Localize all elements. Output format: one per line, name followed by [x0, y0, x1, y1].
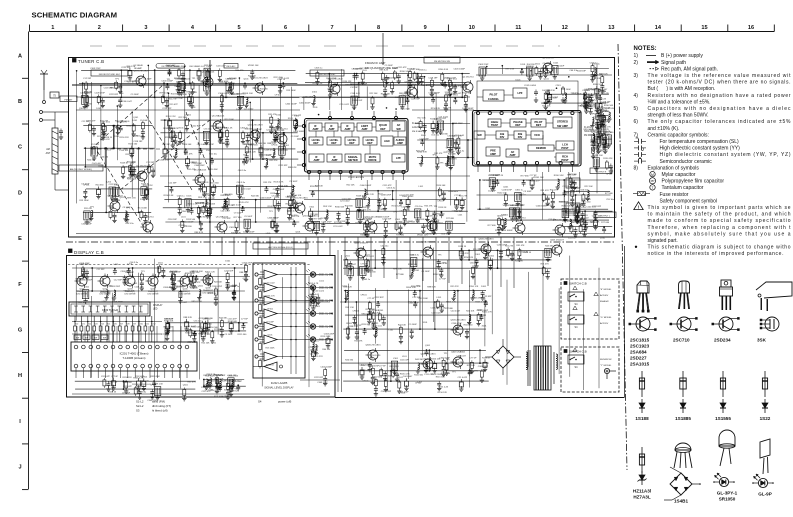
svg-text:R150 12K: R150 12K	[603, 158, 613, 160]
svg-text:11: 11	[515, 25, 521, 31]
svg-text:Q603 2SA684: Q603 2SA684	[451, 351, 466, 354]
svg-text:D101: D101	[421, 135, 427, 137]
svg-text:The voltage is the reference v: The voltage is the reference value measu…	[648, 73, 792, 79]
svg-text:R29: R29	[132, 324, 135, 326]
svg-text:ANT: ANT	[46, 152, 51, 155]
svg-text:CF101: CF101	[123, 121, 130, 123]
svg-text:CF101: CF101	[202, 182, 209, 184]
svg-text:Q101: Q101	[243, 78, 249, 80]
svg-text:LEVEL: LEVEL	[330, 138, 339, 142]
svg-text:Q605 2SC1815: Q605 2SC1815	[365, 345, 381, 347]
svg-text:D101: D101	[535, 64, 541, 66]
svg-text:C400 1000P: C400 1000P	[359, 364, 371, 366]
svg-text:C9 100P: C9 100P	[422, 271, 431, 273]
svg-text:and ±10% (K).: and ±10% (K).	[648, 126, 680, 132]
svg-text:S2-L2: S2-L2	[136, 404, 144, 408]
svg-text:C208 470P: C208 470P	[321, 221, 332, 223]
svg-text:SW: SW	[85, 338, 88, 340]
svg-text:C833 TL50+D: C833 TL50+D	[102, 308, 118, 312]
svg-text:C303 220P: C303 220P	[90, 68, 101, 70]
svg-text:R31 47K: R31 47K	[431, 220, 440, 222]
svg-text:VR101 10K: VR101 10K	[274, 130, 285, 132]
svg-text:R31 47K: R31 47K	[84, 92, 93, 94]
svg-text:R31 47K: R31 47K	[541, 264, 550, 266]
svg-text:R22 10K: R22 10K	[398, 324, 407, 326]
svg-text:R99 1.5K: R99 1.5K	[598, 134, 607, 136]
svg-text:C208 470P: C208 470P	[502, 190, 513, 192]
svg-text:3SK: 3SK	[757, 338, 767, 343]
svg-text:CF101: CF101	[352, 311, 359, 313]
svg-text:1S188: 1S188	[635, 416, 649, 421]
svg-text:R31 47K: R31 47K	[189, 92, 198, 94]
svg-text:Q101: Q101	[544, 79, 550, 81]
svg-text:C9 100P: C9 100P	[234, 213, 243, 215]
svg-text:D101: D101	[410, 255, 416, 257]
svg-text:X101: X101	[482, 325, 488, 327]
svg-text:C44 0.047: C44 0.047	[569, 187, 579, 189]
svg-text:C21 0.022: C21 0.022	[103, 286, 113, 288]
svg-text:R44 330: R44 330	[258, 143, 267, 145]
svg-text:C12 33P: C12 33P	[81, 121, 90, 123]
svg-text:R22 10K: R22 10K	[369, 93, 378, 95]
svg-text:R22 10K: R22 10K	[542, 106, 551, 108]
svg-text:C44 0.047: C44 0.047	[122, 101, 132, 103]
svg-text:IF: IF	[333, 155, 336, 159]
svg-text:C21 0.022: C21 0.022	[244, 109, 254, 111]
svg-text:KE/SW/OW: KE/SW/OW	[600, 359, 612, 361]
svg-text:F: F	[18, 282, 22, 288]
svg-text:TUNER C.B: TUNER C.B	[78, 59, 104, 64]
svg-text:D101: D101	[106, 149, 112, 151]
svg-text:9: 9	[424, 25, 427, 31]
svg-text:R99 1.5K: R99 1.5K	[198, 197, 207, 199]
svg-text:C242 0.0056: C242 0.0056	[524, 85, 537, 87]
svg-text:R201 2.2K: R201 2.2K	[452, 362, 462, 364]
svg-text:R23: R23	[94, 324, 97, 326]
svg-text:Q2 2SC710: Q2 2SC710	[462, 77, 474, 79]
svg-text:X101: X101	[381, 204, 387, 206]
svg-text:D101: D101	[526, 180, 532, 182]
svg-text:AMP: AMP	[329, 127, 335, 131]
svg-text:2SD234: 2SD234	[714, 338, 731, 343]
svg-text:R200 3.9K: R200 3.9K	[591, 78, 601, 80]
svg-text:D101: D101	[84, 287, 90, 289]
svg-text:R210: R210	[138, 324, 143, 326]
svg-text:SW: SW	[94, 338, 97, 340]
svg-text:R44 330: R44 330	[290, 215, 299, 217]
svg-text:C400 1000P: C400 1000P	[462, 108, 474, 110]
svg-text:C12 33P: C12 33P	[146, 162, 155, 164]
svg-text:C305 1u: C305 1u	[518, 194, 527, 196]
svg-text:R150 12K: R150 12K	[497, 193, 507, 195]
svg-text:C208 470P: C208 470P	[79, 263, 90, 265]
svg-text:AMP: AMP	[345, 127, 351, 131]
svg-text:R150 12K: R150 12K	[469, 286, 479, 288]
svg-text:R77 680: R77 680	[229, 78, 238, 80]
svg-text:R77 680: R77 680	[446, 218, 455, 220]
svg-text:R22 10K: R22 10K	[179, 117, 188, 119]
svg-text:C115 47P: C115 47P	[382, 185, 392, 187]
svg-text:C208 470P: C208 470P	[564, 193, 575, 195]
svg-text:AF: AF	[511, 150, 515, 154]
svg-text:C400 1000P: C400 1000P	[273, 189, 285, 191]
svg-text:C55 10u: C55 10u	[441, 234, 450, 236]
svg-text:R77 680: R77 680	[601, 222, 610, 224]
svg-text:R310 56K: R310 56K	[126, 126, 136, 128]
svg-text:R201 2.2K: R201 2.2K	[547, 98, 557, 100]
svg-text:CF101: CF101	[606, 174, 613, 176]
svg-text:R44 330: R44 330	[170, 271, 179, 273]
svg-text:AUDIO: AUDIO	[396, 138, 405, 142]
svg-text:C21 0.022: C21 0.022	[439, 116, 449, 118]
svg-text:R55 27K: R55 27K	[461, 253, 470, 255]
svg-text:X101: X101	[393, 358, 399, 360]
svg-text:R55 27K: R55 27K	[451, 286, 460, 288]
svg-text:Q101: Q101	[133, 117, 139, 119]
svg-text:S3: S3	[136, 409, 140, 413]
svg-text:C77 6P: C77 6P	[379, 366, 387, 368]
svg-text:R115 560: R115 560	[464, 324, 474, 326]
svg-text:C21 0.022: C21 0.022	[431, 313, 441, 315]
svg-text:C55 10u: C55 10u	[380, 246, 389, 248]
svg-text:R150 12K: R150 12K	[581, 105, 591, 107]
svg-text:R77 680: R77 680	[605, 193, 614, 195]
svg-text:R25: R25	[107, 324, 110, 326]
svg-text:C303 220P: C303 220P	[431, 374, 442, 376]
svg-text:C118 18P: C118 18P	[577, 71, 587, 73]
svg-text:R26: R26	[113, 324, 116, 326]
svg-text:C222 82P: C222 82P	[374, 297, 384, 299]
svg-text:C208 470P: C208 470P	[203, 144, 214, 146]
svg-text:CF101: CF101	[362, 381, 369, 383]
svg-text:R115 560: R115 560	[582, 202, 592, 204]
svg-text:R200 3.9K: R200 3.9K	[593, 84, 603, 86]
svg-text:R115 560: R115 560	[274, 77, 284, 79]
svg-text:X101: X101	[414, 270, 420, 272]
svg-text:D101: D101	[158, 262, 164, 264]
svg-text:C118 18P: C118 18P	[168, 219, 178, 221]
svg-text:CF101: CF101	[446, 148, 453, 150]
svg-text:notice in the interests of imp: notice in the interests of improved perf…	[648, 251, 784, 257]
svg-text:R55 27K: R55 27K	[473, 249, 482, 251]
svg-text:C9 100P: C9 100P	[91, 144, 100, 146]
svg-text:C77 6P: C77 6P	[595, 98, 603, 100]
svg-text:D101: D101	[276, 115, 282, 117]
svg-text:C77 6P: C77 6P	[469, 357, 477, 359]
svg-text:C115 47P: C115 47P	[169, 104, 179, 106]
svg-text:strength of less than 50WV.: strength of less than 50WV.	[648, 113, 709, 119]
svg-text:C66 3.3u: C66 3.3u	[125, 223, 134, 225]
svg-text:C44 0.047: C44 0.047	[542, 90, 552, 92]
svg-text:C77 6P: C77 6P	[356, 249, 364, 251]
svg-text:C118 18P: C118 18P	[133, 141, 143, 143]
svg-text:C222 82P: C222 82P	[121, 67, 131, 69]
svg-text:R105 4.7K: R105 4.7K	[601, 126, 611, 128]
svg-text:C9 100P: C9 100P	[523, 191, 532, 193]
svg-text:Q101: Q101	[242, 278, 248, 280]
svg-text:C305 1u: C305 1u	[419, 70, 428, 72]
svg-text:C12 33P: C12 33P	[168, 182, 177, 184]
svg-text:R150 12K: R150 12K	[119, 137, 129, 139]
svg-text:C9 100P: C9 100P	[244, 216, 253, 218]
svg-text:IF: IF	[346, 124, 349, 128]
svg-text:High dielectric constant syste: High dielectric constant system (YY)	[660, 146, 741, 152]
svg-text:C55 10u: C55 10u	[606, 199, 615, 201]
svg-text:1): 1)	[634, 53, 639, 59]
svg-text:R44 330: R44 330	[368, 271, 377, 273]
svg-text:R31 47K: R31 47K	[516, 245, 525, 247]
svg-text:R150 12K: R150 12K	[519, 251, 529, 253]
svg-text:R118 1K: R118 1K	[438, 207, 447, 209]
svg-text:R200 3.9K: R200 3.9K	[400, 71, 410, 73]
svg-text:2SC1815: 2SC1815	[630, 338, 650, 343]
svg-text:C208 470P: C208 470P	[212, 286, 223, 288]
svg-text:R99 1.5K: R99 1.5K	[505, 68, 514, 70]
svg-text:R22 10K: R22 10K	[329, 94, 338, 96]
svg-text:R310 56K: R310 56K	[361, 370, 371, 372]
svg-text:G: G	[18, 328, 22, 334]
svg-text:R44 330: R44 330	[251, 196, 260, 198]
svg-text:Q601 2SD227: Q601 2SD227	[550, 240, 565, 242]
svg-text:R115 560: R115 560	[414, 374, 424, 376]
svg-text:R150 12K: R150 12K	[431, 359, 441, 361]
svg-text:Q101: Q101	[489, 255, 495, 257]
svg-text:C208 470P: C208 470P	[94, 92, 105, 94]
svg-text:R201 2.2K: R201 2.2K	[355, 223, 365, 225]
svg-text:X101: X101	[313, 107, 319, 109]
svg-text:R13 100K: R13 100K	[572, 94, 582, 96]
svg-text:C222 82P: C222 82P	[545, 205, 555, 207]
svg-text:C208 470P: C208 470P	[472, 298, 483, 300]
svg-text:C21 0.022: C21 0.022	[563, 221, 573, 223]
svg-text:R31 47K: R31 47K	[100, 121, 109, 123]
svg-text:R118 1K: R118 1K	[126, 154, 135, 156]
svg-text:SCHEMATIC DIAGRAM: SCHEMATIC DIAGRAM	[32, 11, 118, 20]
svg-text:C115 47P: C115 47P	[597, 91, 607, 93]
svg-text:16: 16	[748, 25, 754, 31]
svg-text:B (+) power supply: B (+) power supply	[661, 53, 703, 59]
svg-text:IC101 LA1231N: IC101 LA1231N	[348, 176, 364, 179]
svg-text:X101: X101	[309, 206, 315, 208]
svg-text:R201 2.2K: R201 2.2K	[601, 108, 611, 110]
svg-text:FM/AM IF AMP: FM/AM IF AMP	[365, 61, 385, 65]
svg-text:FM MUTING SW: FM MUTING SW	[434, 61, 450, 63]
svg-text:VR101 10K: VR101 10K	[242, 93, 253, 95]
svg-text:C118 18P: C118 18P	[119, 150, 129, 152]
svg-text:to maintain the safety of the: to maintain the safety of the product, a…	[648, 212, 791, 218]
svg-text:LED: LED	[153, 309, 158, 311]
svg-text:Therefore, when replacing a co: Therefore, when replacing a component wi…	[648, 225, 792, 231]
svg-text:R310 56K: R310 56K	[335, 207, 345, 209]
svg-text:DRIVE: DRIVE	[368, 158, 376, 162]
svg-text:C12 33P: C12 33P	[488, 190, 497, 192]
svg-text:FM ANT: FM ANT	[64, 98, 73, 101]
svg-text:C303 220P: C303 220P	[446, 77, 457, 79]
svg-text:C101 0.01: C101 0.01	[218, 93, 228, 95]
svg-text:R105 4.7K: R105 4.7K	[468, 370, 478, 372]
svg-text:High dielectric constant syste: High dielectric constant system (YW, YP,…	[660, 152, 791, 158]
svg-text:C44 0.047: C44 0.047	[232, 205, 242, 207]
svg-text:AF: AF	[397, 123, 401, 127]
svg-text:R22 10K: R22 10K	[466, 310, 475, 312]
svg-text:R22 10K: R22 10K	[585, 186, 594, 188]
svg-text:R28: R28	[126, 324, 129, 326]
svg-text:R105 4.7K: R105 4.7K	[482, 312, 492, 314]
svg-text:SR1050: SR1050	[719, 497, 736, 502]
svg-text:IC201 T-400J (T.Beam): IC201 T-400J (T.Beam)	[120, 352, 149, 356]
svg-text:D101: D101	[475, 254, 481, 256]
svg-text:R24: R24	[100, 324, 103, 326]
svg-text:C12 33P: C12 33P	[162, 144, 171, 146]
svg-text:C77 6P: C77 6P	[354, 325, 362, 327]
svg-text:X101: X101	[501, 214, 507, 216]
svg-text:R44 330: R44 330	[545, 245, 554, 247]
svg-text:C9 100P: C9 100P	[368, 325, 377, 327]
svg-text:R13 100K: R13 100K	[79, 200, 89, 202]
svg-text:C400 1000P: C400 1000P	[378, 217, 390, 219]
svg-text:MUTE: MUTE	[369, 155, 377, 159]
svg-text:dfc/muting (FT): dfc/muting (FT)	[152, 404, 171, 408]
svg-text:Q605 2SC1815: Q605 2SC1815	[450, 320, 466, 322]
svg-text:C305 1u: C305 1u	[590, 63, 599, 65]
svg-text:C44 0.047: C44 0.047	[342, 198, 352, 200]
svg-text:VR101 10K: VR101 10K	[361, 313, 372, 315]
svg-text:1S1555: 1S1555	[715, 416, 731, 421]
svg-text:C77 6P: C77 6P	[439, 279, 447, 281]
svg-text:19k: 19k	[500, 132, 505, 136]
svg-text:PILOT: PILOT	[535, 120, 543, 124]
svg-text:R99 1.5K: R99 1.5K	[220, 195, 229, 197]
svg-text:C118 18P: C118 18P	[428, 77, 438, 79]
svg-text:X101: X101	[284, 145, 290, 147]
svg-text:R118 1K: R118 1K	[526, 66, 535, 68]
svg-text:R22 10K: R22 10K	[418, 118, 427, 120]
svg-text:R310 56K: R310 56K	[175, 66, 185, 68]
svg-text:C222 82P: C222 82P	[382, 375, 392, 377]
svg-text:R22 10K: R22 10K	[315, 185, 324, 187]
svg-text:CF101: CF101	[239, 198, 246, 200]
svg-text:C55 10u: C55 10u	[415, 206, 424, 208]
svg-text:BS/AG/K: BS/AG/K	[600, 300, 609, 303]
svg-text:IC202 LA2285: IC202 LA2285	[271, 381, 288, 385]
svg-text:R118 1K: R118 1K	[165, 137, 174, 139]
svg-text:C115 47P: C115 47P	[397, 67, 407, 69]
svg-text:2): 2)	[634, 60, 639, 66]
svg-text:AMP: AMP	[314, 158, 320, 162]
svg-text:Tantalum capacitor: Tantalum capacitor	[662, 185, 704, 191]
svg-text:R13 100K: R13 100K	[225, 119, 235, 121]
svg-text:AMP: AMP	[362, 127, 368, 131]
svg-text:IF: IF	[330, 124, 333, 128]
svg-text:C77 6P: C77 6P	[367, 298, 375, 300]
svg-text:C66 3.3u: C66 3.3u	[569, 70, 578, 72]
svg-text:B: B	[18, 99, 22, 105]
svg-text:4): 4)	[634, 93, 639, 99]
svg-text:AM: 530k-1605kHz (K,E,G): AM: 530k-1605kHz (K,E,G)	[268, 246, 293, 249]
svg-text:C101 0.01: C101 0.01	[371, 355, 381, 357]
svg-text:signated part.: signated part.	[648, 238, 678, 244]
svg-text:C222 82P: C222 82P	[109, 94, 119, 96]
svg-text:AMP: AMP	[397, 141, 403, 145]
svg-text:AC220V: AC220V	[600, 322, 609, 325]
svg-text:DET: DET	[515, 123, 521, 127]
svg-text:SWITCH C.B: SWITCH C.B	[569, 281, 587, 285]
svg-text:Resistors with no designation: Resistors with no designation have a rat…	[648, 93, 791, 99]
svg-text:C118 18P: C118 18P	[104, 87, 114, 89]
svg-text:H: H	[18, 373, 22, 379]
svg-text:C55 10u: C55 10u	[204, 128, 213, 130]
svg-text:15: 15	[701, 25, 707, 31]
svg-text:8: 8	[377, 25, 380, 31]
svg-text:R310 56K: R310 56K	[604, 105, 614, 107]
svg-text:R201 2.2K: R201 2.2K	[205, 271, 215, 273]
svg-text:hi blend (off): hi blend (off)	[152, 409, 168, 413]
svg-text:S1-L2: S1-L2	[136, 400, 144, 404]
svg-text:R99 1.5K: R99 1.5K	[127, 197, 136, 199]
svg-text:A: A	[18, 53, 22, 59]
svg-text:C55 10u: C55 10u	[431, 135, 440, 137]
svg-text:C305 1u: C305 1u	[177, 196, 186, 198]
svg-text:R310 56K: R310 56K	[436, 185, 446, 187]
svg-text:C21 0.022: C21 0.022	[339, 104, 349, 106]
svg-text:C208 470P: C208 470P	[244, 144, 255, 146]
svg-text:C222 82P: C222 82P	[411, 99, 421, 101]
svg-text:VR101 10K: VR101 10K	[503, 205, 514, 207]
svg-text:HZ11A3l: HZ11A3l	[633, 489, 651, 494]
svg-text:D101: D101	[132, 120, 138, 122]
svg-text:R200 3.9K: R200 3.9K	[433, 274, 443, 276]
svg-text:R55 27K: R55 27K	[166, 65, 175, 67]
svg-text:R310 56K: R310 56K	[590, 221, 600, 223]
svg-text:C9 100P: C9 100P	[122, 207, 131, 209]
svg-text:C400 1000P: C400 1000P	[454, 69, 466, 71]
svg-text:C115 47P: C115 47P	[430, 308, 440, 310]
svg-text:AMP: AMP	[510, 153, 516, 157]
svg-text:RCH: RCH	[562, 154, 568, 158]
svg-text:R44 330: R44 330	[345, 360, 354, 362]
svg-text:C9 100P: C9 100P	[556, 66, 565, 68]
svg-text:R201 2.2K: R201 2.2K	[364, 194, 374, 196]
svg-text:R22 10K: R22 10K	[248, 75, 257, 77]
svg-text:Q601 2SD227: Q601 2SD227	[354, 243, 369, 245]
svg-text:CF101: CF101	[360, 295, 367, 297]
svg-text:R88 8.2K: R88 8.2K	[427, 286, 436, 288]
svg-text:R200 3.9K: R200 3.9K	[406, 287, 416, 289]
svg-text:C305 1u: C305 1u	[122, 167, 131, 169]
svg-text:C222 82P: C222 82P	[162, 108, 172, 110]
svg-text:Q101: Q101	[345, 256, 351, 258]
svg-text:LED DRIVE: LED DRIVE	[125, 294, 137, 296]
svg-text:D101: D101	[266, 155, 272, 157]
svg-text:C9 100P: C9 100P	[179, 302, 188, 304]
svg-text:1S22: 1S22	[760, 416, 771, 421]
svg-text:R31 47K: R31 47K	[184, 154, 193, 156]
svg-text:VR101 10K: VR101 10K	[248, 65, 259, 67]
svg-text:power (off): power (off)	[278, 400, 291, 404]
svg-text:IF: IF	[315, 155, 318, 159]
svg-text:R44 330: R44 330	[415, 359, 424, 361]
svg-text:R118 1K: R118 1K	[356, 196, 365, 198]
svg-text:R105 4.7K: R105 4.7K	[446, 302, 456, 304]
svg-text:R105 4.7K: R105 4.7K	[100, 139, 110, 141]
svg-text:38k: 38k	[518, 132, 523, 136]
svg-text:C118 18P: C118 18P	[253, 129, 263, 131]
svg-text:C44 0.047: C44 0.047	[403, 376, 413, 378]
svg-text:7: 7	[331, 25, 334, 31]
svg-text:C9 100P: C9 100P	[409, 324, 418, 326]
svg-text:NOTES:: NOTES:	[634, 46, 657, 52]
svg-text:R44 330: R44 330	[184, 226, 193, 228]
